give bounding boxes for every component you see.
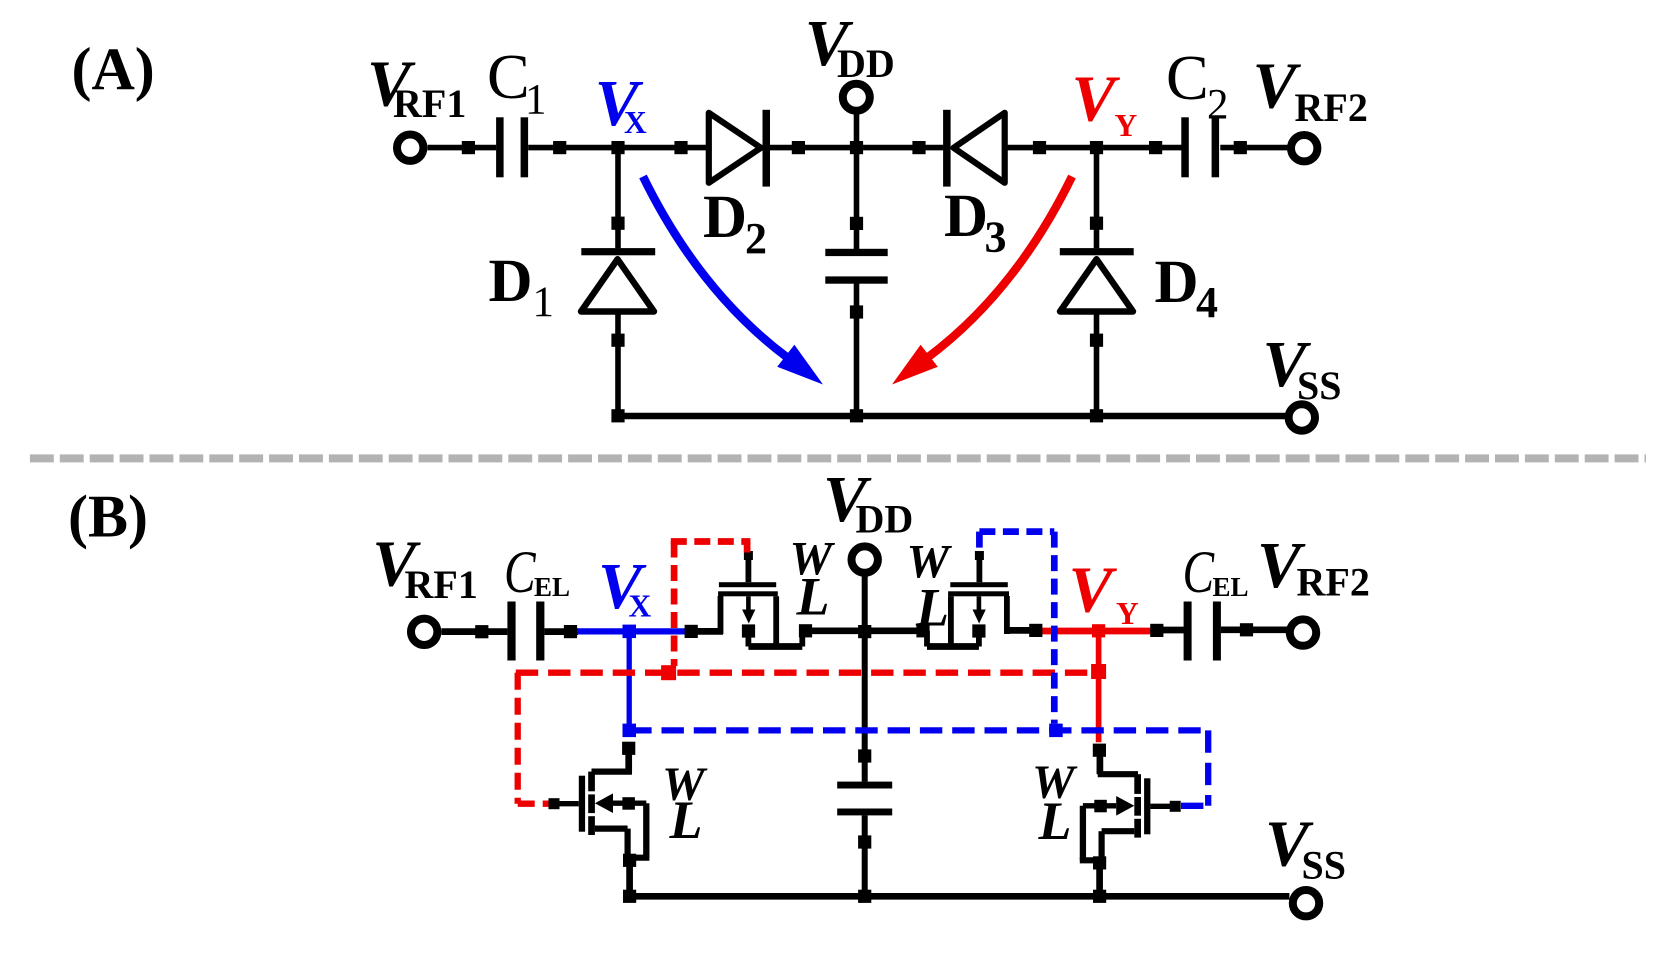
svg-text:SS: SS bbox=[1302, 843, 1347, 888]
svg-text:1: 1 bbox=[525, 76, 547, 123]
svg-text:(A): (A) bbox=[72, 36, 155, 102]
svg-text:EL: EL bbox=[1213, 572, 1249, 602]
svg-text:1: 1 bbox=[533, 279, 555, 326]
svg-text:2: 2 bbox=[745, 214, 767, 263]
svg-text:L: L bbox=[1038, 791, 1072, 851]
svg-text:D: D bbox=[489, 248, 533, 315]
svg-text:D: D bbox=[1155, 249, 1199, 316]
svg-text:V: V bbox=[1072, 63, 1121, 136]
svg-text:RF2: RF2 bbox=[1295, 85, 1368, 130]
svg-text:C: C bbox=[504, 539, 536, 606]
svg-text:C: C bbox=[1183, 539, 1215, 606]
svg-text:DD: DD bbox=[856, 496, 914, 541]
svg-text:(B): (B) bbox=[68, 484, 148, 550]
svg-text:Y: Y bbox=[1115, 108, 1138, 143]
svg-text:C: C bbox=[1166, 42, 1209, 113]
svg-text:2: 2 bbox=[1207, 82, 1229, 129]
svg-text:X: X bbox=[624, 105, 647, 140]
svg-text:V: V bbox=[1069, 554, 1118, 627]
svg-text:Y: Y bbox=[1116, 596, 1139, 631]
svg-text:RF1: RF1 bbox=[393, 81, 466, 126]
svg-text:EL: EL bbox=[534, 572, 570, 602]
svg-text:L: L bbox=[669, 790, 703, 850]
svg-text:X: X bbox=[629, 589, 652, 624]
svg-text:SS: SS bbox=[1297, 363, 1342, 408]
svg-text:D: D bbox=[703, 184, 747, 251]
svg-text:RF2: RF2 bbox=[1297, 560, 1370, 605]
svg-text:3: 3 bbox=[985, 213, 1007, 262]
svg-text:RF1: RF1 bbox=[405, 562, 478, 607]
svg-text:C: C bbox=[487, 41, 530, 112]
svg-text:L: L bbox=[796, 567, 830, 627]
svg-text:4: 4 bbox=[1196, 278, 1218, 327]
svg-text:DD: DD bbox=[837, 41, 895, 86]
svg-text:D: D bbox=[944, 183, 988, 250]
svg-text:L: L bbox=[915, 578, 949, 638]
